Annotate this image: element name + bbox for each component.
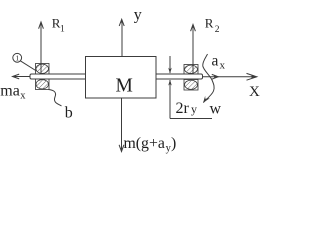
X axis arrow <box>203 73 257 80</box>
label R1 <box>52 16 65 35</box>
left bearing top block <box>36 64 50 75</box>
shaft (horizontal bar) <box>30 74 203 79</box>
R2 force arrow <box>191 25 196 75</box>
circled 1 callout <box>13 53 37 71</box>
svg-text:m(g+a: m(g+a <box>124 135 165 152</box>
label 2r_y <box>176 100 198 117</box>
svg-text:w: w <box>210 101 222 118</box>
R1 force arrow <box>39 22 44 74</box>
right bearing top block <box>184 65 198 75</box>
label ma_x <box>0 83 26 102</box>
a_x small arrowhead <box>212 74 218 79</box>
right bearing bottom block <box>184 80 198 91</box>
svg-text:ma: ma <box>0 83 20 100</box>
svg-text:x: x <box>220 60 226 72</box>
w rotation curve arrow <box>203 54 214 103</box>
svg-text:): ) <box>171 135 176 152</box>
svg-text:1: 1 <box>60 24 65 34</box>
svg-text:b: b <box>65 105 73 122</box>
2r_y dimension upper arrow <box>168 56 172 74</box>
mass M rectangle <box>86 57 157 99</box>
svg-text:1: 1 <box>15 54 19 63</box>
left bearing bottom block <box>36 79 50 90</box>
weight arrow m(g+a_y) <box>119 98 124 152</box>
svg-text:M: M <box>116 76 133 97</box>
svg-text:a: a <box>212 53 219 70</box>
svg-text:y: y <box>191 102 197 116</box>
y axis arrow <box>119 19 124 56</box>
svg-text:x: x <box>20 91 26 102</box>
svg-text:2: 2 <box>215 25 220 35</box>
ma_x arrow (left) <box>13 74 31 79</box>
label a_x <box>212 53 226 72</box>
svg-text:X: X <box>249 84 260 100</box>
b squiggle leader <box>49 90 62 107</box>
label R2 <box>205 16 220 35</box>
svg-text:y: y <box>134 7 142 24</box>
label m(g+a_y) <box>124 135 177 154</box>
svg-text:2r: 2r <box>176 100 190 117</box>
2r_y dimension lower arrow + leader <box>168 80 212 119</box>
svg-text:R: R <box>205 16 214 31</box>
